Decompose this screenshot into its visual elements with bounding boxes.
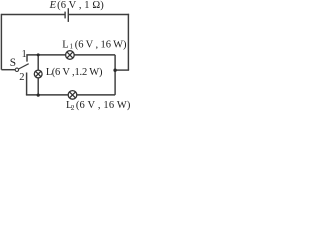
- svg-text:1: 1: [70, 43, 74, 51]
- svg-text:2: 2: [19, 72, 24, 83]
- svg-text:(6 V , 1 Ω): (6 V , 1 Ω): [57, 0, 104, 11]
- switch contact 2 tick and wire down to bottom-left corner: [26, 73, 28, 95]
- wire right edge: [127, 14, 129, 70]
- wire right branch vertical (top branch corner down to bottom wire): [114, 55, 116, 95]
- lamp L label L(6 V ,1.2 W): [46, 67, 103, 78]
- switch S pole circle: [15, 68, 18, 71]
- svg-text:2: 2: [71, 104, 75, 112]
- battery E negative plate: [64, 12, 66, 19]
- lamp L1 label L1(6 V , 16 W): [62, 40, 127, 51]
- svg-text:(6 V , 16 W): (6 V , 16 W): [75, 40, 127, 51]
- wire left edge: [0, 14, 2, 70]
- lamp L2 label L2(6 V , 16 W): [66, 100, 131, 112]
- lamp L symbol: [34, 70, 42, 78]
- svg-text:1: 1: [22, 49, 27, 60]
- wire middle branch lower (lamp L to bottom wire): [37, 78, 39, 95]
- svg-text:S: S: [10, 57, 16, 69]
- junction node B (right stub): [113, 69, 116, 72]
- svg-text:(6 V ,1.2 W): (6 V ,1.2 W): [52, 67, 103, 78]
- wire bottom: [26, 94, 115, 96]
- wire top-left segment: [1, 14, 64, 16]
- wire top-right segment: [68, 14, 129, 16]
- junction node C (bottom wire / lamp L branch): [37, 94, 40, 97]
- battery label E(6 V , 1 Ω): [49, 0, 105, 11]
- svg-text:(6 V , 16 W): (6 V , 16 W): [76, 100, 131, 111]
- lamp L1 symbol: [66, 51, 75, 60]
- wire stub to right edge: [115, 69, 129, 71]
- wire middle branch upper (junction to lamp L): [37, 55, 39, 70]
- battery E positive plate: [67, 8, 69, 22]
- switch contact 1 tick and top branch wire: [27, 55, 115, 62]
- lamp L2 symbol: [68, 91, 77, 100]
- switch S blade: [19, 64, 29, 69]
- svg-text:E: E: [49, 0, 57, 11]
- svg-text:L: L: [62, 40, 68, 51]
- wire switch pole stub: [1, 69, 15, 71]
- junction node A (top branch / lamp L branch): [37, 53, 40, 56]
